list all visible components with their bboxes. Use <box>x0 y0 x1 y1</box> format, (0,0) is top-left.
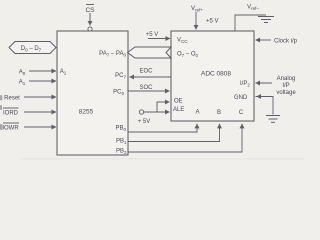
svg-text:+5 V: +5 V <box>146 32 159 38</box>
svg-text:Clock i/p: Clock i/p <box>274 38 298 44</box>
svg-text:IOWR: IOWR <box>2 126 19 132</box>
svg-text:ALE: ALE <box>173 107 184 113</box>
bus arrow O7-O0 to PA port <box>128 47 172 58</box>
svg-text:I/P2: I/P2 <box>240 81 250 88</box>
wire +5V to OE <box>157 102 170 112</box>
svg-text:I/P: I/P <box>282 83 289 89</box>
svg-text:O7 – O0: O7 – O0 <box>177 52 199 59</box>
svg-text:+ 5V: + 5V <box>138 119 151 125</box>
svg-text:CS: CS <box>85 7 95 14</box>
svg-text:Vref–: Vref– <box>247 5 259 12</box>
svg-text:PC7: PC7 <box>115 73 126 80</box>
svg-text:A1: A1 <box>19 80 26 87</box>
IC U2 ADC 0808 box <box>171 31 254 121</box>
svg-text:GND: GND <box>234 95 248 101</box>
wire Clock i/p <box>256 39 272 41</box>
svg-text:C: C <box>239 110 244 116</box>
ground G2 <box>266 116 280 123</box>
wire Vref+ into ADC top <box>195 12 197 30</box>
arrowhead GND <box>257 96 263 98</box>
svg-text:A1: A1 <box>60 69 67 76</box>
svg-text:+5 V: +5 V <box>206 19 219 25</box>
svg-text:PB1: PB1 <box>116 139 127 146</box>
svg-text:8255: 8255 <box>79 109 94 116</box>
inversion bubble on CS pin <box>88 27 92 31</box>
wire A1 <box>29 80 56 82</box>
wire PB2 to C <box>128 124 242 152</box>
wire SOC <box>128 90 170 92</box>
node +5V terminal circle <box>139 110 143 114</box>
wire +5V to Vcc <box>148 38 170 40</box>
wire analog input <box>256 82 273 84</box>
svg-text:voltage: voltage <box>276 90 296 96</box>
svg-text:Vref+: Vref+ <box>191 6 203 13</box>
wire GND to ground <box>256 97 274 115</box>
CS overline <box>86 4 94 6</box>
IOWR overline <box>3 122 19 124</box>
svg-text:EOC: EOC <box>139 69 153 75</box>
wire Reset <box>24 96 56 98</box>
wire PB0 to A <box>128 124 197 132</box>
svg-text:Analog: Analog <box>277 76 296 82</box>
svg-text:PB2: PB2 <box>116 149 127 156</box>
svg-text:A: A <box>195 109 199 115</box>
svg-text:PA7 – PA0: PA7 – PA0 <box>99 51 126 58</box>
svg-text:PB0: PB0 <box>115 126 126 133</box>
wire A0 <box>29 70 56 72</box>
svg-text:IORD: IORD <box>3 111 19 117</box>
IORD overline <box>3 107 19 109</box>
svg-text:VCC: VCC <box>177 38 188 45</box>
svg-text:A0: A0 <box>19 70 26 77</box>
svg-text:ADC 0808: ADC 0808 <box>201 71 231 78</box>
scan smudge artifacts left edge <box>0 95 3 130</box>
wire IOWR <box>24 126 56 128</box>
wire Vref- to ground <box>235 15 266 31</box>
svg-text:Reset: Reset <box>4 96 20 102</box>
faint scan streak bottom <box>20 158 304 160</box>
IC U1 8255 box <box>57 31 128 155</box>
svg-text:SOC: SOC <box>139 85 153 91</box>
wire EOC <box>130 76 172 78</box>
svg-text:B: B <box>217 110 221 116</box>
wire PB1 to B <box>128 124 220 142</box>
data bus D0-D7 arrow <box>9 42 56 54</box>
svg-text:OE: OE <box>174 99 183 105</box>
wire CS to 8255 <box>89 13 91 26</box>
wire +5V to ALE <box>144 111 170 113</box>
ground G1 <box>258 17 274 23</box>
svg-text:PC0: PC0 <box>113 90 124 97</box>
svg-text:D0 – D7: D0 – D7 <box>21 46 42 53</box>
wire IORD <box>24 111 56 113</box>
